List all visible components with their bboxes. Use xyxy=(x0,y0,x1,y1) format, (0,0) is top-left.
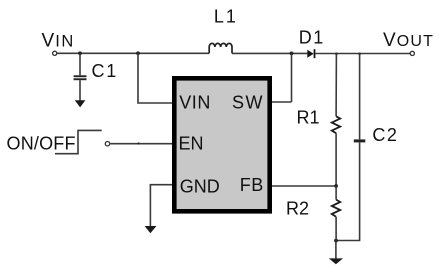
node EN terminal circle xyxy=(105,142,109,146)
wire VIN branch to pin VIN xyxy=(138,53,172,103)
ground (GND pin) xyxy=(145,226,157,233)
wire SW drop (junction down to SW pin) xyxy=(272,53,292,102)
node VIN (input terminal circle) xyxy=(53,51,57,55)
wire R1 bottom to FB junction xyxy=(335,133,337,186)
svg-text:VIN: VIN xyxy=(42,31,75,52)
wire junction down to ground xyxy=(335,241,337,259)
resistor R1 xyxy=(332,116,340,133)
svg-text:R2: R2 xyxy=(286,199,309,219)
wire rail down to R1 xyxy=(335,54,337,117)
wire R2 bottom to ground junction xyxy=(335,217,337,241)
wire FB junction down to R2 xyxy=(335,186,337,200)
junction (FB node) xyxy=(334,184,338,188)
resistor R2 xyxy=(332,200,340,217)
wire C1 top lead xyxy=(79,53,81,75)
capacitor C1 xyxy=(74,75,87,80)
svg-text:C2: C2 xyxy=(372,125,398,145)
svg-text:VOUT: VOUT xyxy=(383,30,434,51)
svg-text:FB: FB xyxy=(240,175,264,195)
junction tick on EN wire xyxy=(137,142,139,144)
wire FB pin to divider xyxy=(272,185,336,187)
junction tick (R1 rail tap) xyxy=(335,53,338,56)
svg-text:VIN: VIN xyxy=(179,93,211,113)
svg-text:ON/OFF: ON/OFF xyxy=(7,134,76,154)
junction (C1 tap) xyxy=(78,51,82,55)
junction tick (C2 rail tap) xyxy=(358,53,361,56)
wire C1 bottom lead xyxy=(79,80,81,101)
wire GND pin to ground xyxy=(150,185,172,227)
junction (SW node) xyxy=(290,52,294,56)
svg-text:D1: D1 xyxy=(299,28,325,48)
svg-text:EN: EN xyxy=(179,133,204,153)
switch step symbol (logic-level edge) xyxy=(55,130,102,153)
ground (below C1) xyxy=(75,100,86,107)
wire L1 to D1 anode xyxy=(232,52,307,54)
inductor L1 xyxy=(209,43,232,53)
svg-text:L1: L1 xyxy=(214,6,238,26)
diode D1 xyxy=(307,49,315,58)
IC U1 (regulator block) xyxy=(172,76,272,214)
wire C2 bottom lead down and left to ground junction xyxy=(336,142,360,240)
wire VIN rail (input to L1) xyxy=(57,52,209,54)
junction (output ground node) xyxy=(334,239,338,243)
node VOUT (output terminal circle) xyxy=(410,51,414,55)
svg-text:C1: C1 xyxy=(92,61,119,81)
wire D1 cathode to VOUT xyxy=(315,53,410,55)
junction (VIN pin branch) xyxy=(136,51,140,55)
svg-text:R1: R1 xyxy=(297,108,320,128)
wire rail down to C2 xyxy=(359,54,361,140)
svg-text:SW: SW xyxy=(232,93,264,113)
wire EN xyxy=(110,143,172,145)
svg-text:GND: GND xyxy=(180,177,220,197)
capacitor C2 xyxy=(354,139,366,142)
ground (output divider) xyxy=(329,258,343,264)
